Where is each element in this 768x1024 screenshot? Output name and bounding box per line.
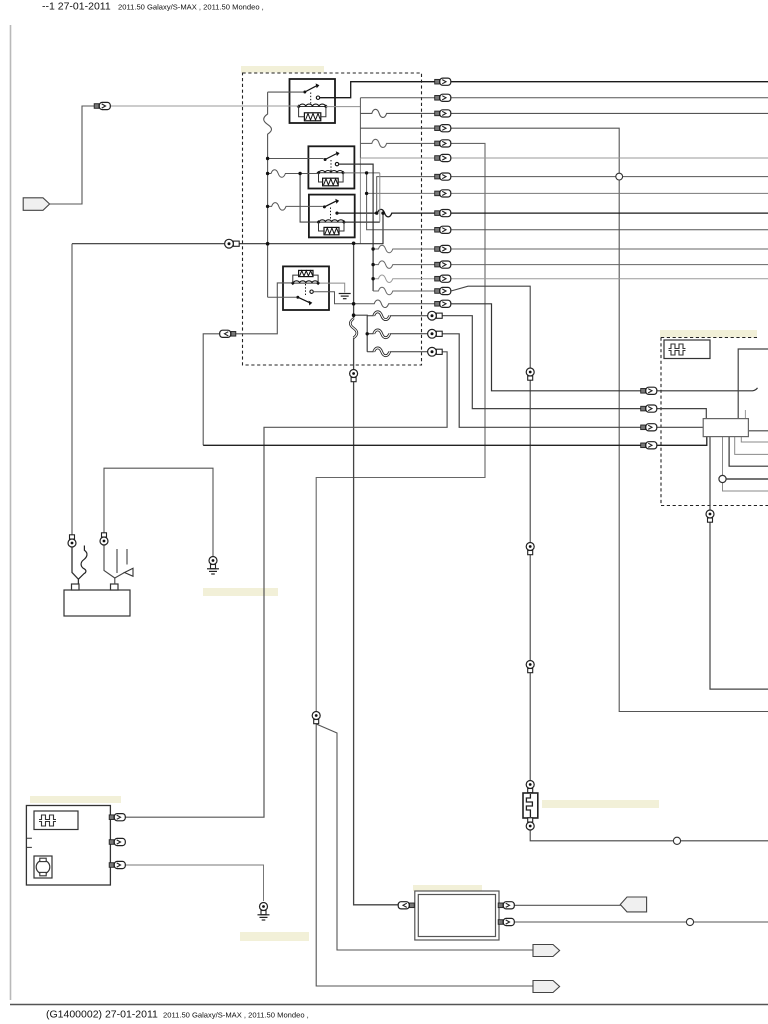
footer text — [46, 1009, 309, 1021]
relay K2 — [308, 146, 354, 188]
wire block bottom drop y442 — [741, 437, 768, 442]
pin row 3 — [435, 110, 451, 117]
wire bus x360 vertical — [359, 98, 361, 158]
pin row 9 — [435, 210, 451, 217]
wire relay K1 coil-right to corner — [326, 106, 361, 108]
wire pin8 run — [367, 192, 768, 194]
inline connector on x316 drop — [312, 712, 320, 724]
pin row 15 — [435, 300, 451, 307]
left module pin 1 — [109, 814, 125, 821]
inline connector on x530 drop middle — [526, 543, 534, 555]
wire bus x360 continuation to battery feed — [359, 158, 361, 244]
bottom box right pin 1 — [498, 902, 514, 909]
junction K2 coil wavy — [266, 172, 269, 175]
junction battery feed / x353 drop — [352, 242, 356, 246]
open circle on pin7 crossing — [616, 173, 623, 180]
arrow connector bottom 2 — [533, 981, 560, 993]
relay K3 coil resistor — [324, 227, 339, 234]
open circle on bottom box pin2 run — [686, 918, 693, 925]
junction x353 pin15 — [352, 302, 356, 306]
wire block bottom drop y454 — [735, 437, 768, 455]
junction K3 coil-left branch — [298, 172, 301, 175]
wire right-box pin4 run — [203, 437, 707, 446]
battery body — [64, 590, 130, 616]
bottom box left pin — [398, 902, 414, 909]
open circle on block drop y479 — [719, 475, 726, 482]
pin row 16 eyelet — [428, 311, 443, 320]
relay K3 — [309, 195, 355, 238]
wire block right output — [748, 430, 768, 432]
page left border — [10, 25, 12, 1000]
wire pin12 wavy run — [373, 261, 768, 269]
left inline pin on K4 coil feed — [220, 330, 236, 337]
wire pin10 run — [367, 173, 768, 230]
wire pin17 right to right-box pin3 — [443, 334, 704, 428]
highlight bar fuse label — [542, 800, 659, 808]
fuse upper terminal — [526, 781, 534, 793]
relay K4 coil — [293, 282, 318, 284]
wire top-left riser to arrow — [50, 106, 95, 204]
wire left inline pin to relay K4 coil-left — [203, 283, 291, 445]
wire pin4 run to right drop — [360, 128, 768, 711]
junction bus pin12 — [371, 263, 374, 266]
relay K4 — [283, 266, 329, 310]
wire relay K4 contact run — [313, 292, 352, 304]
relay K2 coil resistor — [323, 178, 339, 186]
highlight bar right module label — [660, 330, 757, 338]
wire pin18 right to left module pin1 — [125, 352, 447, 817]
inline connector on battery right branch — [100, 533, 108, 545]
wire left module pin3 to ground — [125, 865, 264, 901]
wire pin1 net: relay K1 contact to pin row 1 — [320, 82, 768, 98]
wire relay K2 coil-left wavy feed — [268, 170, 318, 178]
inline connector on x530 drop lower — [526, 661, 534, 673]
pin row 7 — [435, 173, 451, 180]
right module dashed border — [661, 338, 768, 506]
wire relay K4 pivot feed — [268, 296, 297, 298]
module left ticks — [26, 838, 32, 847]
left eyelet pin on battery feed — [225, 239, 240, 248]
pin row 2 — [435, 94, 451, 101]
right-box pin 3 — [641, 424, 657, 431]
wire pin17 thick wavy — [374, 330, 390, 338]
wire battery positive below connector — [72, 547, 78, 585]
wire pin15 right to right-box pin1 — [451, 304, 758, 391]
pin row 12 — [435, 261, 451, 268]
highlight bar bottom box label — [413, 885, 482, 891]
wire relay pivots chain x267 — [264, 92, 272, 297]
relay K4 coil resistor — [299, 270, 313, 276]
wire relay K4 coil-right to ground — [320, 283, 345, 292]
wire relay K2 pivot feed — [268, 158, 324, 160]
pin row 5 — [435, 140, 451, 147]
junction x353 bus16 — [352, 313, 356, 317]
highlight bar bottom label — [240, 932, 309, 941]
pin row 14 — [435, 287, 451, 294]
relay K2 coil — [319, 172, 344, 174]
wire relay K2 contact to bus x373 — [339, 164, 373, 291]
left module pin 3 — [109, 861, 125, 868]
bottom box right pin 2 — [498, 918, 514, 925]
wire pin6 run — [360, 157, 768, 159]
wire battery stub A — [116, 549, 118, 573]
wire block bottom long drop x710 — [710, 437, 768, 689]
svg-text:(G1400002) 27-01-2011: (G1400002) 27-01-2011 — [46, 1009, 158, 1021]
wire relay K1 pivot feed — [268, 91, 304, 93]
svg-text:2011.50 Galaxy/S-MAX , 2011.50: 2011.50 Galaxy/S-MAX , 2011.50 Mondeo , — [118, 3, 264, 12]
left module pin 2 — [109, 838, 125, 845]
svg-text:2011.50 Galaxy/S-MAX , 2011.50: 2011.50 Galaxy/S-MAX , 2011.50 Mondeo , — [163, 1011, 309, 1020]
pin row 8 — [435, 190, 451, 197]
highlight bar left module label — [30, 796, 121, 803]
waveform box — [664, 340, 710, 359]
fuse lower terminal — [526, 818, 534, 830]
junction bus16 wavy17 — [366, 332, 369, 335]
wire bottom box right pin2 run — [513, 921, 768, 923]
pin row 4 — [435, 125, 451, 132]
junction K2 pivot — [266, 157, 269, 160]
wire coil chain x380 — [379, 173, 381, 222]
wire battery right post branches — [104, 544, 115, 578]
relay K1 coil resistor — [304, 113, 320, 121]
module motor symbol — [34, 856, 52, 878]
module body — [26, 806, 110, 886]
wire pin13 wavy run — [373, 275, 768, 283]
inline connector on x710 drop — [706, 510, 714, 522]
wire pin16 right to right-box pin2 — [443, 316, 707, 419]
header text — [42, 1, 264, 13]
control block — [703, 419, 748, 437]
junction battery feed top — [381, 211, 384, 214]
wire pin2 run — [360, 97, 768, 99]
arrow connector top-left — [23, 198, 49, 211]
wire battery left squiggle — [78, 546, 87, 580]
wire pin5 wavy run to left drop — [316, 139, 485, 711]
wire pin15 wavy run — [352, 300, 435, 308]
wire pin11 wavy run — [373, 245, 768, 253]
ground symbol relay K4 — [339, 294, 351, 299]
relay K4 switch — [305, 284, 307, 296]
wire pin14 wavy left — [373, 287, 435, 295]
wire relay K3 coil-right run — [344, 221, 380, 223]
wire pin16 thick wavy — [374, 312, 390, 320]
right-box pin 2 — [641, 405, 657, 412]
relay box dashed border — [243, 73, 422, 365]
pin row 11 — [435, 245, 451, 252]
junction coil chain — [365, 171, 368, 174]
wire open circle y479 output — [726, 478, 768, 480]
wire fuse output to right — [530, 830, 768, 841]
wire relay K2 coil-right run — [343, 172, 380, 174]
arrow connector mid-right pointing left — [620, 897, 646, 912]
wire battery junction to marker arrow — [115, 573, 125, 579]
inline connector on battery riser — [68, 535, 76, 547]
ground symbol battery branch — [209, 557, 217, 569]
module waveform box — [34, 811, 78, 830]
battery post left — [72, 584, 80, 590]
inline connector on x530 drop upper — [526, 368, 534, 380]
wire block bottom drop y466 — [729, 437, 768, 467]
ground symbol left module — [260, 903, 268, 915]
page bottom separator — [10, 1004, 768, 1006]
open circle on fuse output run — [673, 837, 680, 844]
wire 3-wavy bus feed — [354, 315, 368, 352]
wire pin3 wavy run — [360, 109, 768, 117]
pin row 1 — [435, 78, 451, 85]
junction battery feed / pivots chain — [266, 242, 270, 246]
highlight bar relay box label — [241, 66, 324, 73]
relay K1 — [290, 79, 336, 123]
wire x353 wavy overlay — [350, 319, 357, 338]
junction pin8 — [365, 192, 368, 195]
wire x353 main drop — [350, 243, 401, 905]
battery junction marker triangle — [125, 568, 134, 576]
wire block top short gray — [744, 410, 746, 419]
wire relay K1 coil-left feed from left pin — [107, 105, 299, 107]
wire bottom box right pin1 to left arrow — [513, 904, 621, 906]
fuse body — [523, 793, 538, 818]
arrow connector bottom 1 — [533, 945, 560, 957]
wire block top feed from right — [738, 349, 768, 419]
battery post right — [111, 584, 119, 590]
right-box pin 1 — [641, 387, 657, 394]
wire connector x316 diagonal branch to upper arrow — [316, 724, 534, 950]
wire battery stub B — [126, 549, 128, 565]
left pin into relay K1 coil — [94, 102, 110, 109]
wire relay K3 pivot wavy feed — [268, 203, 323, 211]
wire connector x316 straight continuation to bottom arrow — [316, 720, 534, 986]
highlight bar battery label — [203, 588, 278, 596]
svg-text:--1 27-01-2011: --1 27-01-2011 — [42, 1, 111, 13]
wire relay K3 coil-left drop — [300, 174, 317, 223]
wire block bottom drop to open circle y479 — [723, 437, 768, 491]
pin row 18 eyelet — [428, 347, 443, 356]
wire pin9 net: relay K3 contact with wavy — [337, 209, 768, 217]
relay K3 coil — [319, 221, 345, 223]
junction pin7 drop — [375, 211, 378, 214]
wires into control block — [710, 349, 768, 689]
wire pin14 right diagonal to x530 drop — [451, 286, 530, 780]
wire battery positive riser — [71, 244, 73, 538]
right-box pin 4 — [641, 442, 657, 449]
junction K3 pivot wavy — [266, 205, 269, 208]
relay K1 coil — [299, 106, 326, 108]
pin row 6 — [435, 154, 451, 161]
pin row 10 — [435, 226, 451, 233]
wire battery feed y243 — [72, 213, 383, 244]
battery right post junction lines — [114, 578, 116, 585]
pin row 17 eyelet — [428, 329, 443, 338]
junction bus pin13 — [371, 277, 374, 280]
wire pin18 thick wavy — [374, 348, 390, 356]
inline connector on x353 drop — [350, 370, 358, 382]
junction bus pin11 — [371, 247, 374, 250]
pin row 13 — [435, 275, 451, 282]
wire pin7 run — [377, 177, 768, 214]
